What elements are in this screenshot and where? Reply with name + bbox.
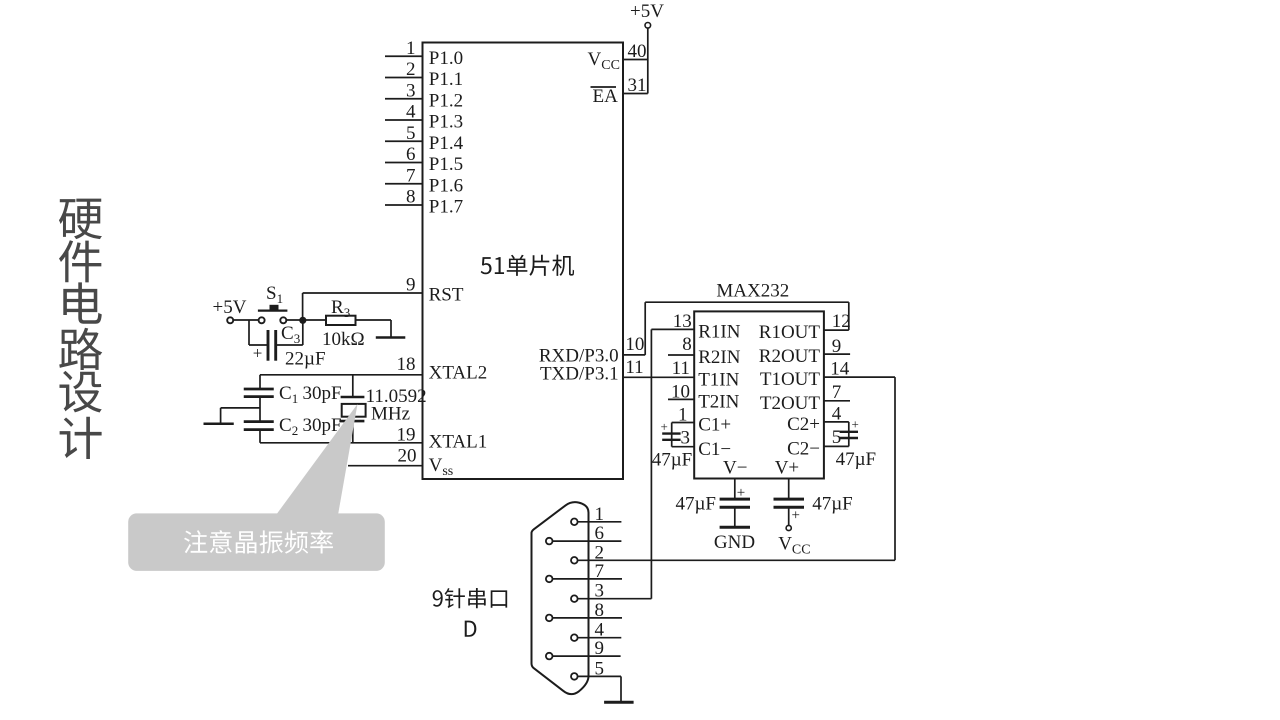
- pin 8 P1.7 stub wire: [385, 187, 463, 218]
- svg-text:20: 20: [398, 446, 417, 467]
- svg-text:V+: V+: [775, 458, 799, 479]
- pin 31 EA (active low): [591, 75, 648, 107]
- pin 10 RXD/P3.0: [539, 334, 645, 367]
- svg-text:47µF: 47µF: [652, 450, 693, 471]
- wire +5V to switch S1: [233, 319, 258, 321]
- capacitor C2 30pF: [244, 415, 342, 438]
- svg-text:P1.5: P1.5: [429, 154, 463, 175]
- pin 18 XTAL2: [397, 354, 488, 384]
- svg-text:1: 1: [406, 38, 416, 59]
- DB9 pin 2: [571, 542, 604, 563]
- power +5V supply terminal: [630, 1, 664, 94]
- svg-text:TXD/P3.1: TXD/P3.1: [540, 364, 619, 385]
- pin 4 C2+ (MAX232 right): [787, 403, 849, 435]
- svg-text:XTAL2: XTAL2: [429, 363, 488, 384]
- svg-text:GND: GND: [714, 532, 755, 553]
- svg-text:5: 5: [595, 658, 605, 679]
- svg-text:10: 10: [625, 334, 644, 355]
- power +5V (reset circuit): [213, 297, 247, 323]
- pin 1 P1.0 stub wire: [385, 38, 463, 69]
- wire XTAL2 (pin18): [260, 374, 423, 376]
- svg-text:T2OUT: T2OUT: [760, 393, 821, 414]
- ground (crystal): [204, 422, 234, 425]
- svg-text:R1IN: R1IN: [698, 322, 741, 343]
- pin 3 C1− (MAX232 left): [672, 428, 731, 460]
- DB9 pin 6: [546, 523, 622, 544]
- pin 19 XTAL1: [397, 425, 488, 453]
- wire S1 to node A: [286, 319, 326, 321]
- wire T1OUT to DB9 pin2: [578, 377, 895, 560]
- svg-text:+: +: [792, 508, 800, 524]
- svg-text:2: 2: [406, 59, 416, 80]
- pin 5 P1.4 stub wire: [385, 123, 464, 154]
- svg-text:13: 13: [673, 311, 692, 332]
- title text 硬件电路设计 (vertical): [59, 199, 102, 459]
- wire TXD/P3.1 to MAX232 T1IN: [623, 376, 694, 378]
- DB9 pin 9: [546, 638, 621, 659]
- DB9 pin 7: [546, 561, 622, 582]
- ground GND (V- cap): [714, 527, 755, 553]
- pin 12 R1OUT (MAX232 right): [759, 311, 851, 343]
- svg-text:7: 7: [595, 561, 605, 582]
- pin 14 T1OUT (MAX232 right): [760, 359, 895, 391]
- svg-text:RST: RST: [429, 285, 464, 306]
- svg-text:C2−: C2−: [787, 438, 820, 459]
- pin 9 R2OUT (MAX232 right): [759, 336, 850, 367]
- svg-text:9: 9: [595, 638, 605, 659]
- svg-text:S1: S1: [266, 283, 283, 306]
- node A junction dot (RST net): [299, 317, 306, 324]
- wire R3 to ground: [356, 320, 392, 338]
- pin 8 R2IN (MAX232 left): [668, 334, 741, 368]
- svg-text:3: 3: [681, 428, 691, 449]
- switch S1 (pushbutton): [258, 283, 288, 323]
- pin 7 T2OUT (MAX232 right): [760, 382, 850, 414]
- svg-text:EA: EA: [593, 86, 619, 107]
- svg-text:+: +: [852, 417, 859, 432]
- DB9 pin 8: [546, 600, 622, 621]
- svg-text:8: 8: [595, 600, 605, 621]
- svg-text:MHz: MHz: [371, 404, 410, 425]
- svg-text:+5V: +5V: [213, 297, 247, 318]
- capacitor C5 47uF (C2+/C2-): [836, 417, 877, 471]
- svg-text:P1.7: P1.7: [429, 197, 463, 218]
- svg-text:4: 4: [832, 403, 842, 424]
- svg-text:+: +: [253, 344, 263, 363]
- svg-text:3: 3: [595, 581, 605, 602]
- pin 5 C2− (MAX232 right): [787, 427, 849, 459]
- svg-text:11: 11: [672, 358, 690, 379]
- pin 7 P1.6 stub wire: [385, 165, 463, 196]
- svg-text:XTAL1: XTAL1: [429, 432, 488, 453]
- svg-text:C1+: C1+: [698, 415, 731, 436]
- svg-text:V−: V−: [723, 458, 747, 479]
- svg-text:47µF: 47µF: [836, 449, 877, 470]
- svg-text:4: 4: [406, 102, 416, 123]
- svg-text:47µF: 47µF: [812, 494, 853, 515]
- svg-text:1: 1: [678, 404, 688, 425]
- svg-text:+: +: [737, 485, 745, 501]
- label MAX232: [716, 281, 789, 302]
- pin 10 T2IN (MAX232 left): [668, 382, 740, 413]
- wire Vss (pin20): [348, 465, 423, 467]
- svg-text:11: 11: [625, 357, 643, 378]
- connector J1 DB9 shell (9针串口): [532, 502, 589, 694]
- svg-text:8: 8: [406, 187, 416, 208]
- svg-text:10: 10: [671, 382, 690, 403]
- svg-text:P1.0: P1.0: [429, 48, 463, 69]
- svg-text:22µF: 22µF: [285, 349, 326, 370]
- svg-text:P1.3: P1.3: [429, 112, 463, 133]
- svg-text:5: 5: [406, 123, 416, 144]
- svg-text:1: 1: [595, 504, 605, 525]
- op: MAX232 U2 box: [694, 311, 824, 478]
- callout wedge pointer to crystal: [276, 404, 358, 515]
- pin 3 P1.2 stub wire: [385, 80, 463, 111]
- wire R1IN to DB9 pin3: [650, 329, 652, 598]
- pin 13 R1IN (MAX232 left): [651, 311, 740, 343]
- capacitor C3 branch wires: [249, 320, 303, 345]
- svg-text:P1.4: P1.4: [429, 133, 464, 154]
- capacitor C3 22uF (electrolytic): [253, 323, 326, 370]
- svg-text:C2: C2: [279, 415, 298, 438]
- svg-text:VCC: VCC: [588, 49, 620, 73]
- resistor R3 10k: [322, 297, 365, 350]
- wire XTAL1 (pin19): [260, 442, 423, 444]
- pin 20 Vss: [398, 446, 454, 480]
- pin 1 C1+ (MAX232 left): [672, 404, 731, 435]
- svg-text:30pF: 30pF: [303, 415, 342, 436]
- ground (R3): [376, 336, 406, 339]
- DB9 pin 3: [571, 581, 651, 602]
- callout bubble 注意晶振频率: [128, 513, 385, 571]
- svg-text:C1: C1: [279, 383, 298, 406]
- svg-text:47µF: 47µF: [675, 494, 716, 515]
- svg-text:9: 9: [832, 336, 842, 357]
- svg-text:8: 8: [682, 334, 692, 355]
- wire ground tap of crystal caps: [221, 408, 260, 424]
- pin 4 P1.3 stub wire: [385, 102, 463, 133]
- wire node A up to RST pin: [303, 293, 423, 320]
- svg-text:R1OUT: R1OUT: [759, 322, 821, 343]
- svg-text:6: 6: [406, 144, 416, 165]
- svg-text:+: +: [661, 419, 668, 434]
- pin 9 RST: [406, 275, 464, 306]
- wire left bus of crystal caps: [259, 375, 261, 443]
- svg-text:R3: R3: [331, 297, 350, 320]
- capacitor C6 47uF on V- to GND: [675, 479, 750, 527]
- svg-text:MAX232: MAX232: [716, 281, 789, 302]
- svg-text:14: 14: [830, 359, 850, 380]
- ground (DB9 pin5): [604, 701, 634, 704]
- svg-text:T2IN: T2IN: [698, 392, 739, 413]
- svg-text:P1.2: P1.2: [429, 90, 463, 111]
- DB9 pin 1: [571, 504, 621, 525]
- svg-text:Vss: Vss: [429, 455, 454, 479]
- pin V+ label: [775, 458, 799, 479]
- svg-text:P1.1: P1.1: [429, 69, 463, 90]
- svg-text:30pF: 30pF: [303, 383, 342, 404]
- svg-text:P1.6: P1.6: [429, 175, 463, 196]
- svg-text:C2+: C2+: [787, 414, 820, 435]
- svg-text:T1OUT: T1OUT: [760, 369, 821, 390]
- DB9 pin 4: [571, 620, 621, 641]
- wire DB9 pin5 to ground: [620, 676, 622, 701]
- pin V- label: [723, 458, 747, 479]
- capacitor C7 47uF on V+ to VCC: [774, 479, 853, 526]
- wire RXD/P3.0 to MAX232 R1OUT (pin12): [623, 302, 849, 355]
- svg-text:T1IN: T1IN: [698, 370, 739, 391]
- svg-text:VCC: VCC: [778, 534, 810, 558]
- pin 2 P1.1 stub wire: [385, 59, 463, 90]
- svg-text:10kΩ: 10kΩ: [322, 329, 365, 350]
- svg-text:R2OUT: R2OUT: [759, 346, 821, 367]
- svg-text:3: 3: [406, 80, 416, 101]
- label 9针串口 D: [433, 588, 508, 637]
- svg-text:12: 12: [832, 311, 851, 332]
- svg-text:18: 18: [397, 354, 416, 375]
- crystal Y1 11.0592 MHz: [339, 375, 426, 443]
- svg-text:7: 7: [406, 165, 416, 186]
- pin 40 VCC: [588, 41, 648, 73]
- svg-text:R2IN: R2IN: [698, 347, 741, 368]
- power VCC terminal (V+ cap): [778, 525, 810, 557]
- label 51单片机: [481, 255, 574, 276]
- capacitor C4 47uF (C1+/C1-): [652, 419, 693, 471]
- svg-text:C3: C3: [281, 323, 300, 346]
- DB9 pin 5: [571, 658, 621, 679]
- pin 11 TXD/P3.1: [540, 357, 644, 385]
- svg-text:+5V: +5V: [630, 1, 664, 22]
- svg-text:7: 7: [832, 382, 842, 403]
- pin 6 P1.5 stub wire: [385, 144, 463, 175]
- pin 11 T1IN (MAX232 left): [672, 358, 740, 391]
- op: main MCU U1 51单片机 box: [423, 43, 624, 480]
- svg-text:6: 6: [595, 523, 605, 544]
- capacitor C1 30pF: [244, 383, 342, 406]
